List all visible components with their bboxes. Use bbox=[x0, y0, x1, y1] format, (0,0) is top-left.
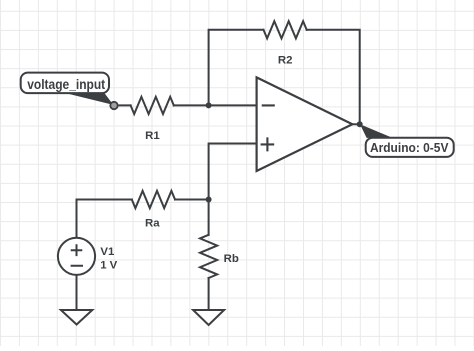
svg-text:1 V: 1 V bbox=[100, 260, 117, 272]
svg-text:R2: R2 bbox=[278, 55, 293, 67]
svg-text:Arduino: 0-5V: Arduino: 0-5V bbox=[370, 140, 449, 155]
svg-text:voltage_input: voltage_input bbox=[27, 77, 105, 92]
svg-text:V1: V1 bbox=[100, 246, 115, 258]
svg-text:Rb: Rb bbox=[224, 253, 239, 265]
svg-text:R1: R1 bbox=[145, 130, 160, 142]
svg-text:Ra: Ra bbox=[145, 217, 160, 229]
